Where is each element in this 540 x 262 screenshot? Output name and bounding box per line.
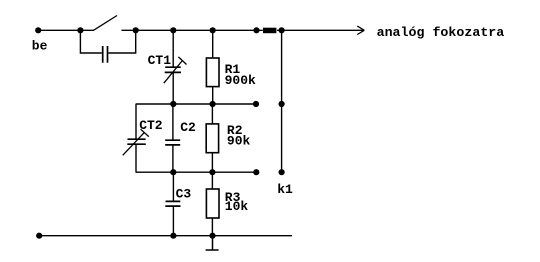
resistor R2 body <box>206 124 218 153</box>
junction bottom R3 ground <box>209 233 215 239</box>
resistor R3 top lead <box>211 172 213 189</box>
svg-text:10k: 10k <box>225 199 249 214</box>
capacitor C2 top lead <box>172 104 174 140</box>
switch blade (open) <box>94 16 118 31</box>
trimmer CT2 arrow <box>123 133 144 156</box>
resistor R1 bottom lead <box>212 87 214 104</box>
junction k1 tap2 (bottom) <box>279 169 285 175</box>
trimmer CT1 top lead <box>172 30 174 67</box>
junction tap2 C3 <box>170 169 176 175</box>
capacitor C2 bottom lead <box>172 145 174 172</box>
bypass capacitor plates <box>103 46 108 63</box>
wire bottom rail <box>39 235 292 237</box>
svg-text:C2: C2 <box>180 120 196 135</box>
wire tap2 (R2/R3 junction) <box>136 171 257 173</box>
trimmer CT2 bottom lead <box>135 144 137 172</box>
junction k1 tap1 <box>279 101 285 107</box>
resistor R1 body <box>206 58 219 87</box>
trimmer CT2 top lead <box>135 104 137 139</box>
terminal bottom left <box>36 233 42 239</box>
svg-text:analóg fokozatra: analóg fokozatra <box>377 25 505 40</box>
contact tap2 end <box>253 169 259 175</box>
wire output to arrow <box>277 29 364 31</box>
trimmer CT1 arrow T-bar <box>178 57 186 65</box>
junction tap2 R3 <box>209 169 215 175</box>
trimmer CT2 arrow T-bar <box>141 129 149 136</box>
svg-text:k1: k1 <box>277 182 293 197</box>
svg-text:CT2: CT2 <box>139 118 163 133</box>
trimmer CT1 bottom lead <box>172 72 174 104</box>
junction after k1 closed contact <box>279 27 285 33</box>
contact tap1 end <box>253 101 259 107</box>
trimmer CT1 plates <box>165 67 181 72</box>
capacitor C3 bottom lead <box>172 206 174 236</box>
arrowhead output <box>357 26 364 34</box>
capacitor C3 top lead <box>172 172 174 201</box>
svg-text:C3: C3 <box>176 187 192 202</box>
junction before k1 closed contact <box>253 27 259 33</box>
wire switch fixed contact to bar <box>122 29 263 31</box>
junction R1 top <box>210 27 216 33</box>
bypass capacitor branch left wire <box>80 30 101 53</box>
junction bottom C3 <box>170 233 176 239</box>
junction switch fixed contact <box>133 27 139 33</box>
trimmer CT1 arrow <box>164 60 183 83</box>
svg-text:90k: 90k <box>227 134 251 149</box>
resistor R3 body <box>206 189 219 218</box>
ground <box>206 236 219 250</box>
svg-text:900k: 900k <box>225 73 256 88</box>
junction switch pivot <box>77 27 83 33</box>
capacitor C2 plates <box>165 140 180 145</box>
resistor R3 bottom lead <box>211 218 213 236</box>
switch k1 closed contact bar <box>263 28 276 34</box>
wire top rail left (be to switch pivot) <box>38 29 94 31</box>
junction CT1 top <box>170 27 176 33</box>
resistor R1 top lead <box>212 30 214 58</box>
svg-text:be: be <box>32 39 48 54</box>
switch k1 common rail <box>281 30 283 172</box>
wire tap1 (R1/R2 junction) <box>136 103 256 105</box>
capacitor C3 plates <box>165 201 180 206</box>
resistor R2 bottom lead <box>211 153 213 173</box>
trimmer CT2 plates <box>127 139 146 144</box>
bypass capacitor branch right wire <box>108 30 135 53</box>
svg-text:CT1: CT1 <box>148 53 172 68</box>
junction tap1 C2 <box>170 101 176 107</box>
terminal be <box>35 27 41 33</box>
junction tap1 R2 <box>210 101 216 107</box>
resistor R2 top lead <box>211 104 213 124</box>
